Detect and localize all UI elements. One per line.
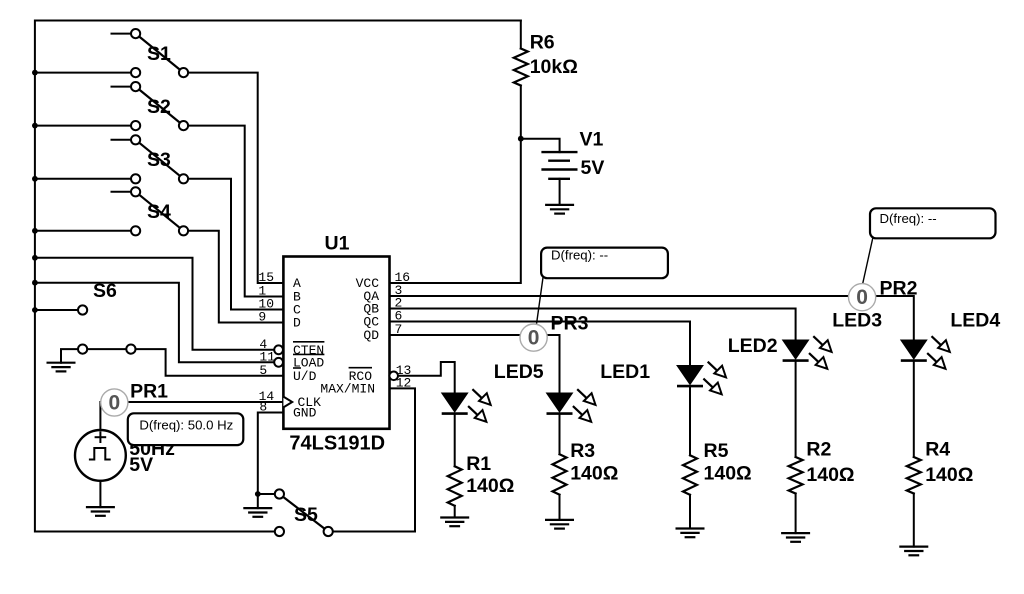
callout box PR1 <box>128 413 244 445</box>
wire clock to ground <box>99 481 101 507</box>
wire S5 to MAX/MIN pin 12 <box>328 388 415 531</box>
LED LED1 <box>677 362 726 395</box>
ground at R2 <box>781 533 810 542</box>
ground at R3 <box>545 520 574 529</box>
svg-text:PR1: PR1 <box>130 381 168 403</box>
resistor R4 <box>907 457 921 494</box>
wire LED5 cathode to resistor R3 <box>559 415 561 454</box>
junction on bus LOAD <box>32 280 38 286</box>
svg-text:140Ω: 140Ω <box>570 463 618 485</box>
resistor R2 <box>789 457 803 494</box>
wire junction to ground stub <box>257 494 259 508</box>
wire S2 upper stub <box>112 86 136 88</box>
svg-text:8: 8 <box>259 400 267 415</box>
junction on bus at S3 <box>32 176 38 182</box>
callout box PR2 <box>870 208 996 238</box>
svg-text:D: D <box>293 316 301 331</box>
switch S3 <box>131 135 188 183</box>
svg-text:PR3: PR3 <box>551 313 589 335</box>
wire clock to CLK pin 14 <box>100 402 283 430</box>
svg-text:S2: S2 <box>147 96 171 118</box>
junction on bus at S4 <box>32 228 38 234</box>
switch S4 <box>131 187 188 235</box>
switch S5 <box>275 489 333 536</box>
wire QA pin 3 to LED column 5 <box>390 296 914 340</box>
wire QD pin 7 to LED column 2 <box>390 335 560 393</box>
svg-text:5: 5 <box>259 363 267 378</box>
wire LED (RCO) column cathode to resistor R1 <box>454 415 456 467</box>
wire S6 ground stub <box>61 349 83 363</box>
wire S6 to U/D pin 5 <box>131 349 284 376</box>
svg-text:140Ω: 140Ω <box>806 464 854 486</box>
leader line PR2 callout <box>863 238 873 285</box>
resistor R1 <box>448 466 462 506</box>
wire S4 upper stub <box>112 191 136 193</box>
ground at R4 <box>899 547 928 556</box>
wire LED3 cathode to resistor R4 <box>913 362 915 457</box>
wire bus to S4 left terminal <box>35 230 136 232</box>
callout box PR3 <box>541 248 668 279</box>
probe PR3 <box>520 324 547 351</box>
junction at battery tap <box>518 136 524 142</box>
LED LED2 <box>783 336 832 369</box>
svg-text:R6: R6 <box>530 32 555 54</box>
clock source V2 50Hz <box>75 430 126 481</box>
svg-text:U/D: U/D <box>293 369 317 384</box>
chip U1 74LS191D body <box>283 257 389 429</box>
ground at R5 <box>676 529 705 538</box>
ground at S6 <box>47 363 76 372</box>
resistor R5 <box>683 455 697 495</box>
wire R6 bottom to VCC pin 16 <box>390 86 521 284</box>
wire QC pin 6 to LED column 3 <box>390 322 691 366</box>
resistor R3 <box>553 454 567 495</box>
svg-text:140Ω: 140Ω <box>704 463 752 485</box>
wire main loop: top rail, left bus, bottom rail <box>35 21 521 532</box>
svg-text:5V: 5V <box>581 157 605 179</box>
ground at clock source <box>86 507 115 516</box>
svg-text:LED4: LED4 <box>950 310 1000 332</box>
svg-text:140Ω: 140Ω <box>925 464 973 486</box>
svg-text:QD: QD <box>363 328 379 343</box>
ground at GND node <box>243 508 272 517</box>
switch S2 <box>131 82 188 130</box>
wire GND pin 8 to junction <box>258 413 284 495</box>
svg-text:0: 0 <box>856 286 868 309</box>
wire bus to CTEN pin 4 <box>35 258 274 350</box>
wire bus to S1 left terminal <box>35 72 136 74</box>
bubble RCO pin 13 <box>389 372 398 381</box>
wire R4 to ground <box>913 494 915 547</box>
wire S2 output to chip <box>184 126 284 297</box>
wire bus to S6 terminal <box>35 309 83 311</box>
svg-text:R4: R4 <box>925 439 950 461</box>
svg-text:R3: R3 <box>570 440 595 462</box>
svg-text:S1: S1 <box>147 43 171 65</box>
wire S3 upper stub <box>112 139 136 141</box>
svg-text:PR2: PR2 <box>880 278 918 300</box>
svg-text:LED5: LED5 <box>494 361 544 383</box>
probe PR1 <box>101 389 128 416</box>
svg-text:12: 12 <box>396 375 412 390</box>
wire S3 output to chip <box>184 179 284 310</box>
svg-text:140Ω: 140Ω <box>466 475 514 497</box>
junction GND node <box>255 491 261 497</box>
wire S1 upper stub <box>112 33 136 35</box>
svg-text:V1: V1 <box>580 128 604 150</box>
wire R1 to ground <box>454 506 456 518</box>
junction on bus at S1 <box>32 70 38 76</box>
svg-text:D(freq): 50.0 Hz: D(freq): 50.0 Hz <box>139 418 233 433</box>
svg-text:S4: S4 <box>147 201 171 223</box>
svg-text:D(freq): --: D(freq): -- <box>880 211 937 226</box>
bubble LOAD pin 11 <box>274 358 283 367</box>
wire QB pin 2 to LED column 4 <box>390 309 796 341</box>
svg-text:LED3: LED3 <box>832 310 882 332</box>
svg-text:R1: R1 <box>466 453 491 475</box>
wire S4 output to chip <box>184 231 284 323</box>
svg-text:10kΩ: 10kΩ <box>530 56 578 78</box>
wire S1 output to chip <box>184 73 284 283</box>
leader line PR3 callout <box>536 278 543 326</box>
LED LED3 <box>901 336 950 369</box>
svg-text:R5: R5 <box>704 440 729 462</box>
switch S6 <box>78 305 136 353</box>
clock input triangle pin 14 <box>283 397 292 408</box>
svg-text:MAX/MIN: MAX/MIN <box>320 382 375 397</box>
LED LED5 <box>547 389 596 422</box>
resistor R6 <box>514 49 528 86</box>
svg-text:0: 0 <box>528 326 540 349</box>
svg-text:S5: S5 <box>294 504 318 526</box>
wire junction to S5 <box>258 493 280 495</box>
wire bus to S3 left terminal <box>35 178 136 180</box>
switch S1 <box>131 29 188 77</box>
svg-text:S3: S3 <box>147 149 171 171</box>
junction on bus CTEN <box>32 255 38 261</box>
ground at R1 <box>440 518 469 527</box>
wire R3 to ground <box>559 495 561 520</box>
svg-text:LED1: LED1 <box>600 361 650 383</box>
svg-text:U1: U1 <box>325 233 350 255</box>
wire bus to LOAD pin 11 <box>35 283 274 363</box>
wire R2 to ground <box>795 494 797 534</box>
svg-text:R2: R2 <box>806 439 831 461</box>
ground at battery <box>545 205 574 214</box>
wire LED1 cathode to resistor R5 <box>689 387 691 455</box>
svg-text:D(freq): --: D(freq): -- <box>551 248 608 263</box>
probe PR2 <box>849 284 876 311</box>
svg-text:9: 9 <box>258 310 266 325</box>
wire R5 to ground <box>689 495 691 529</box>
bubble CTEN pin 4 <box>274 345 283 354</box>
svg-text:LED2: LED2 <box>728 335 778 357</box>
svg-text:0: 0 <box>108 391 120 414</box>
junction on bus S6 <box>32 307 38 313</box>
wire R6 top stub <box>520 21 522 49</box>
junction on bus at S2 <box>32 123 38 129</box>
LED LED (RCO) column <box>442 389 491 422</box>
svg-text:7: 7 <box>395 322 403 337</box>
wire LED2 cathode to resistor R2 <box>795 362 797 457</box>
wire battery to ground <box>559 179 561 205</box>
wire bus to S2 left terminal <box>35 125 136 127</box>
battery V1 <box>541 152 577 179</box>
svg-text:GND: GND <box>293 406 317 421</box>
svg-text:74LS191D: 74LS191D <box>289 433 385 455</box>
wire battery branch <box>521 139 560 152</box>
wire RCO pin 13 to LED column 1 <box>398 362 455 393</box>
svg-text:S6: S6 <box>93 280 117 302</box>
svg-text:5V: 5V <box>129 454 153 476</box>
